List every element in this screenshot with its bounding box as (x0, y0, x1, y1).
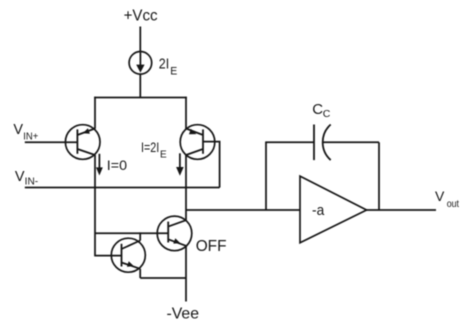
transistor Q2 emitter arrowhead (PNP) (189, 129, 197, 134)
transistor Q4 emitter diagonal (168, 239, 186, 246)
wire amp output to V_out (366, 209, 436, 211)
svg-text:C: C (312, 101, 323, 118)
svg-text:E: E (170, 65, 177, 77)
svg-text:out: out (447, 199, 459, 210)
transistor Q1 circle (65, 125, 100, 160)
svg-text:I=0: I=0 (107, 157, 127, 173)
transistor Q2 emitter diagonal (186, 129, 203, 136)
wire Q1 collector vertical (94, 155, 96, 256)
annotation arrowhead I=0 (96, 167, 103, 175)
wire diff output to amp input (186, 209, 300, 211)
wire V_IN- (25, 187, 220, 189)
transistor Q3 emitter diagonal (122, 263, 141, 269)
wire Q4 base from left (95, 232, 168, 234)
wire V_IN+ to Q1 base (25, 141, 78, 143)
wire Q2 base to right (203, 142, 220, 188)
wire Q1 emitter vertical (94, 97, 96, 129)
annotation arrowhead I=2IE (176, 167, 184, 176)
wire Q3 base from left (95, 255, 122, 257)
transistor Q1 base bar (76, 129, 78, 153)
svg-text:2I: 2I (159, 57, 169, 73)
wire Q4 emitter down to -Vee (185, 246, 187, 302)
transistor Q4 base bar (167, 222, 169, 243)
wire feedback top left segment (265, 141, 314, 143)
wire top rail (94, 97, 187, 99)
transistor Q3 base bar (121, 244, 123, 267)
svg-text:-Vee: -Vee (167, 306, 200, 323)
wire Q2 emitter vertical (185, 97, 187, 129)
wire Q2 collector down to node (185, 155, 187, 210)
capacitor C_C curved plate (323, 125, 331, 161)
transistor Q2 base bar (202, 129, 204, 153)
svg-text:+Vcc: +Vcc (124, 8, 158, 25)
transistor Q1 collector diagonal (77, 149, 95, 155)
wire Q3 emitter to Q4 emitter (140, 277, 186, 279)
wire node to Q4 collector (185, 210, 187, 220)
svg-text:-a: -a (312, 202, 325, 219)
svg-text:C: C (323, 108, 331, 120)
wire feedback top right segment (323, 141, 379, 143)
transistor Q1 emitter arrowhead (PNP) (83, 128, 90, 134)
transistor Q3 circle (111, 238, 145, 272)
svg-text:V: V (15, 169, 25, 185)
transistor Q3 emitter arrowhead (NPN) (127, 261, 134, 267)
svg-text:OFF: OFF (196, 238, 227, 255)
svg-text:IN+: IN+ (23, 131, 38, 142)
transistor Q3 collector diagonal (122, 241, 141, 250)
transistor Q4 circle (157, 216, 192, 251)
svg-text:I=2I: I=2I (141, 139, 159, 155)
wire current source to rail (139, 74, 141, 97)
transistor Q4 collector diagonal (168, 220, 186, 226)
current annotation arrow I=2IE shaft (179, 153, 181, 168)
svg-text:V: V (13, 122, 23, 138)
current source arrow shaft (139, 52, 141, 66)
capacitor C_C left plate (313, 125, 315, 161)
current source I1 circle (129, 52, 152, 75)
wire Q3 collector up to Q4 base line (139, 232, 141, 240)
svg-text:IN-: IN- (25, 177, 39, 188)
svg-text:V: V (435, 188, 445, 204)
current source arrowhead (136, 65, 144, 73)
transistor Q1 emitter diagonal (77, 129, 95, 136)
wire feedback right tap (378, 142, 380, 210)
transistor Q2 circle (180, 125, 215, 160)
op-amp A1 triangle (300, 176, 367, 243)
transistor Q2 collector diagonal (186, 149, 203, 155)
wire feedback left tap (265, 142, 267, 210)
wire Q3 emitter down (139, 269, 141, 278)
current annotation arrow I=0 shaft (98, 154, 100, 169)
svg-text:E: E (160, 150, 167, 161)
wire Vcc stub (139, 27, 141, 52)
transistor Q4 emitter arrowhead (NPN) (173, 238, 180, 243)
